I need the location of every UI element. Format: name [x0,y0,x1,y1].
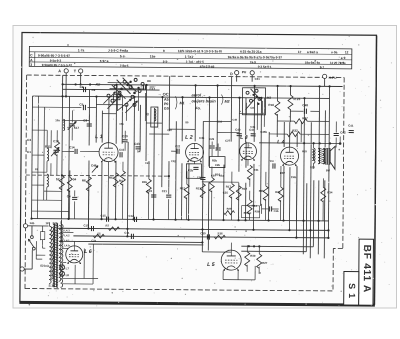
svg-text:C4b: C4b [199,136,204,140]
svg-text:R3b: R3b [255,209,260,213]
right rail x330 [328,86,329,237]
svg-text:R31: R31 [253,168,259,172]
resistor R32 [287,132,300,137]
wire x210 [208,97,211,166]
svg-text:1·7a1·: 1·7a1· [185,55,194,59]
chassis dashed boundary [27,75,344,77]
svg-text:10a: 10a [119,122,124,126]
wire x255 [253,86,255,142]
svg-text:9·96a06·95·7·3·5·5·97: 9·96a06·95·7·3·5·5·97 [38,54,71,58]
svg-text:G0: G0 [164,107,169,111]
svg-text:C21: C21 [162,189,168,193]
switch S21a [30,236,33,239]
svg-text:C23: C23 [145,161,150,165]
wire x103 [101,111,103,143]
wire x129 [126,142,129,236]
svg-text:C45b: C45b [260,130,267,134]
output coupling wires [241,245,313,248]
fuse [40,232,44,240]
wire x258 [256,102,258,130]
wire x147 [145,85,148,161]
resistor R30 [245,252,250,267]
svg-text:a·9: a·9 [341,56,346,60]
wire x262 [260,98,263,206]
wire x270 [268,132,271,220]
svg-text:ooijers bruin: ooijers bruin [191,98,216,103]
svg-text:7a·9: 7a·9 [250,60,256,64]
mid dashed AVC line [26,175,169,176]
svg-text:19a·9a1 9a: 19a·9a1 9a [305,61,321,65]
svg-text:L8: L8 [66,273,70,277]
svg-text:→ OC: → OC [158,92,169,97]
svg-text:C27: C27 [225,139,230,143]
svg-text:PU: PU [242,70,247,74]
svg-text:R37: R37 [302,116,308,120]
svg-text:C41: C41 [348,124,354,128]
scan speckles [256,34,259,37]
junction dots [61,83,63,85]
svg-text:3: 3 [30,63,32,67]
svg-text:R16: R16 [268,103,274,107]
svg-text:R8: R8 [147,79,151,83]
bus y241 [61,241,203,242]
svg-text:L 6: L 6 [84,249,92,255]
svg-text:C30: C30 [200,231,206,235]
switch drops [116,93,118,111]
svg-text:C13: C13 [53,139,59,143]
svg-text:a7a·3 9·a5: a7a·3 9·a5 [200,64,215,68]
svg-text:M3: M3 [266,96,271,100]
svg-text:7·9a·5: 7·9a·5 [120,64,129,68]
IF transformer S7 [209,156,225,167]
coil S1b [47,174,49,187]
wire x155 [153,108,156,219]
svg-text:L4.b: L4.b [64,243,70,247]
bus y243 [88,243,203,246]
svg-text:C4: C4 [67,194,71,198]
svg-text:Fo.: Fo. [195,106,201,110]
wire x302 [300,121,302,142]
svg-text:M1: M1 [179,101,184,105]
svg-text:R34: R34 [327,190,333,194]
wire x135 [133,97,136,219]
svg-text:C07: C07 [167,128,172,132]
wire x97 [95,97,97,143]
wire x320 [318,86,321,150]
svg-text:14b: 14b [29,221,34,225]
svg-text:C2b: C2b [215,163,220,167]
svg-text:C25: C25 [223,191,229,195]
svg-text:9·3 5a·9·1: 9·3 5a·9·1 [258,65,272,69]
trimmer S17 [70,123,75,125]
wire x240 [238,98,241,172]
svg-text:L4.3: L4.3 [64,228,70,232]
svg-text:L4.2: L4.2 [64,233,70,237]
drawing frame [20,32,377,304]
svg-text:R5: R5 [109,176,113,180]
svg-text:34: 34 [73,177,77,181]
label box S 1 [344,272,359,306]
svg-text:C4b: C4b [250,125,255,129]
svg-text:R,1b,c: R,1b,c [244,211,252,215]
wire drops right [202,251,231,253]
rail y96 right [261,97,329,100]
svg-text:C48: C48 [302,103,308,107]
svg-text:H.PU: H.PU [329,76,338,80]
wire x163 [161,97,164,187]
svg-text:R6: R6 [82,178,86,182]
svg-text:C43: C43 [134,142,140,146]
svg-text:C1: C1 [27,150,31,154]
svg-text:L 5: L 5 [207,262,215,268]
svg-text:R27: R27 [262,261,268,265]
svg-text:C40: C40 [232,118,237,122]
svg-text:C4: C4 [270,159,274,163]
svg-text:L 4: L 4 [277,139,285,145]
wire x141 [139,105,141,151]
svg-text:C15: C15 [101,214,107,218]
svg-text:D: D [230,72,233,76]
svg-text:R2b: R2b [212,158,217,162]
svg-text:K1: K1 [96,83,100,87]
svg-text:L4.1: L4.1 [64,238,70,242]
mains terminal upper [23,224,27,228]
svg-text:1P: 1P [45,221,49,225]
terminal HPU [323,74,327,78]
svg-text:R7: R7 [105,224,109,228]
box under L2 [186,164,201,179]
svg-text:aerol →: aerol → [191,92,206,97]
svg-text:C10: C10 [83,223,89,227]
wire x247 [245,142,247,168]
svg-text:C4b: C4b [291,175,297,179]
wire x298 full [296,166,298,220]
wire x123 [121,105,123,144]
svg-text:C14: C14 [69,145,75,149]
svg-text:5·97·a: 5·97·a [100,59,109,63]
svg-text:b·s·: b·s· [120,54,126,58]
wire x278 [276,86,278,101]
mains terminal lower [20,267,24,271]
resistor R20 horizontal [224,211,235,215]
svg-text:C2b: C2b [188,168,194,172]
speaker [325,148,330,164]
wire x196 [194,85,196,141]
left rail x39 [37,96,40,218]
svg-text:C15: C15 [119,148,125,152]
bus y218 [32,219,329,221]
resistor R27 [257,254,262,269]
svg-text:P0: P0 [164,102,168,106]
wire x183 [181,97,183,141]
wire x117 [115,85,117,144]
svg-text:C17: C17 [150,87,156,91]
svg-text:R10: R10 [215,173,221,177]
plate feed rail y141 [259,142,340,145]
left rail x63 [61,75,62,241]
rail x45 [43,107,46,200]
tone network box [242,206,260,218]
svg-text:C24: C24 [91,239,96,243]
wire x232 [230,77,233,142]
wire x190 [188,163,190,219]
wire x177 [175,121,178,219]
switch M3 box [242,88,265,115]
svg-text:C9: C9 [83,118,87,122]
svg-text:R19: R19 [242,187,248,191]
speaker wires [324,148,325,150]
output transformer S5 [318,148,320,164]
svg-text:C31: C31 [255,77,261,81]
svg-text:S23: S23 [310,165,315,169]
svg-text:9·5a·9·3: 9·5a·9·3 [50,59,62,63]
resistor R25 [288,95,293,110]
svg-text:A5: A5 [164,98,169,102]
wire x298 [296,134,298,147]
wire x204 [202,121,203,251]
resistor R37 [294,119,307,124]
antenna coil [63,119,64,130]
svg-text:C3: C3 [27,138,31,142]
bus y236 [73,236,328,238]
svg-text:54: 54 [137,149,141,153]
svg-text:C02: C02 [171,159,176,163]
wire x170 [168,76,170,131]
top rail +HT [63,84,343,86]
svg-text:C11: C11 [124,231,129,235]
svg-text:C22: C22 [175,144,181,148]
wire x326 [324,110,326,147]
svg-text:12/5·12a5+9·a1 9·19·3·5·3a·8l: 12/5·12a5+9·a1 9·19·3·5·3a·8l [178,49,222,53]
svg-text:R30: R30 [250,254,256,258]
label box BF 411 A [359,239,374,305]
svg-text:S 1: S 1 [347,283,357,299]
svg-text:S21a,b: S21a,b [40,264,49,268]
svg-text:1·7a1 · a91·5: 1·7a1 · a91·5 [186,60,204,64]
svg-text:A: A [58,69,61,73]
left rail x33 [31,96,34,218]
svg-text:9·96a06·95·7·3·5·5·97: 9·96a06·95·7·3·5·5·97 [42,63,73,67]
svg-text:4·25 4a 25·21a: 4·25 4a 25·21a [240,50,262,54]
dial lamps [60,265,65,270]
svg-text:L 1: L 1 [95,134,103,140]
svg-text:R33: R33 [302,149,307,153]
svg-text:a·9a2·a: a·9a2·a [307,50,318,54]
svg-text:L 2: L 2 [185,135,193,141]
svg-text:5·5·: 5·5· [163,59,168,63]
svg-text:12: 12 [345,50,349,54]
choke S23 [313,148,315,163]
svg-text:C42: C42 [340,130,346,134]
wire x52 [50,130,52,148]
svg-text:R20: R20 [227,207,232,211]
svg-text:BF 411 A: BF 411 A [361,245,372,293]
tube top leads [108,97,110,143]
rail y96 [33,96,262,98]
wire x265 [263,98,265,127]
wire x90 [88,90,90,146]
svg-text:C8: C8 [92,88,96,92]
svg-text:R32: R32 [292,129,298,133]
svg-text:9·7: 9·7 [320,65,325,69]
svg-text:C25: C25 [209,137,214,141]
svg-text:S17: S17 [74,126,80,130]
svg-text:L7: L7 [66,266,70,270]
rail y89 [63,88,160,91]
L5 cathode network [222,271,224,280]
svg-text:17: 17 [298,50,302,54]
wire x218 [216,86,219,150]
svg-text:C12: C12 [129,214,135,218]
svg-text:R1b: R1b [142,180,148,184]
svg-text:15a·: 15a· [150,54,156,58]
wire x291 [290,86,292,95]
wire x70 [68,96,71,218]
svg-text:C40: C40 [235,128,241,132]
svg-text:J·5·9·C·Fm8a: J·5·9·C·Fm8a [108,49,128,53]
coil S1a [47,148,49,161]
svg-text:C33: C33 [217,120,222,124]
short horizontal links [96,104,122,106]
svg-text:u·9a: u·9a [331,50,338,54]
svg-text:14·25·73·9a: 14·25·73·9a [330,61,346,65]
svg-text:1·7a: 1·7a [78,48,85,52]
wire x312 [310,122,311,258]
svg-text:9: 9 [163,49,165,53]
svg-text:10a: 10a [55,118,60,122]
bus y228 [58,228,328,230]
title block [29,46,352,69]
wire x285 [283,122,285,147]
oscillator coil box [151,107,158,127]
svg-text:C3b: C3b [274,209,279,213]
wire x305 [303,98,304,254]
svg-text:S 21: S 21 [49,284,56,288]
secondary taps [63,231,73,233]
svg-text:9a·9a·a·9a·9a·9a·9·a7a·9·9a79a: 9a·9a·a·9a·9a·9a·9·a7a·9·9a79a·9·97 [228,55,282,59]
svg-text:C8: C8 [250,106,254,110]
svg-text:R 25: R 25 [293,97,300,101]
wire x225 [223,165,225,220]
left short rails [32,129,47,131]
svg-text:5W: 5W [326,168,331,172]
